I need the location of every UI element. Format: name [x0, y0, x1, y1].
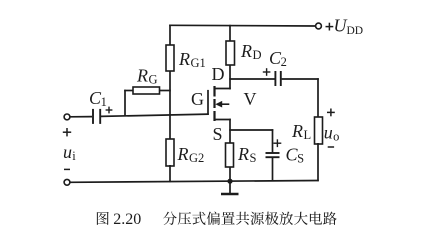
label ui — [63, 142, 76, 163]
label C2 + — [263, 68, 271, 76]
resistor RG2 — [166, 139, 174, 166]
wire top power rail — [169, 24, 315, 27]
label RS — [237, 144, 257, 165]
label G — [191, 89, 204, 109]
wire C1 to gate — [101, 114, 209, 116]
transistor V gate bar — [207, 90, 209, 115]
transistor V channel source segment — [213, 111, 215, 121]
svg-text:R: R — [291, 121, 303, 141]
svg-text:DD: DD — [347, 25, 364, 37]
svg-text:R: R — [136, 66, 148, 86]
svg-text:R: R — [178, 49, 190, 69]
label input minus — [64, 168, 70, 170]
wire drain to C2 — [229, 78, 274, 80]
svg-text:2: 2 — [281, 55, 287, 69]
wire RG1 top lead — [169, 25, 171, 47]
transistor V substrate arrow — [215, 101, 229, 108]
label V — [244, 89, 257, 109]
label input + — [63, 128, 71, 136]
svg-text:1: 1 — [101, 95, 107, 109]
svg-text:u: u — [63, 142, 72, 162]
label RG — [136, 66, 158, 87]
ground symbol — [221, 181, 239, 194]
wire source lead — [214, 119, 231, 121]
wire drain lead — [214, 88, 231, 90]
svg-text:S: S — [250, 151, 257, 165]
label S — [213, 124, 223, 144]
svg-text:i: i — [72, 149, 76, 163]
wire RD top lead — [229, 25, 231, 42]
svg-text:G2: G2 — [189, 151, 204, 165]
wire RD to drain — [229, 65, 231, 89]
label C1 + — [106, 107, 113, 114]
wire output vertical top — [317, 78, 319, 118]
svg-text:V: V — [244, 89, 257, 109]
label D — [212, 64, 225, 84]
caption title 分压式偏置共源极放大电路 — [163, 212, 337, 225]
svg-text:G: G — [191, 89, 204, 109]
svg-text:G: G — [149, 73, 158, 87]
capacitor CS — [266, 153, 280, 157]
label RG2 — [177, 144, 205, 165]
label RD — [240, 41, 262, 62]
wire input to C1 — [70, 116, 92, 118]
wire source to CS — [229, 129, 273, 131]
label RG1 — [178, 49, 206, 70]
svg-text:o: o — [333, 130, 339, 144]
wire C2 to output — [282, 78, 319, 80]
wire RG left lead — [124, 90, 133, 117]
label CS + — [274, 139, 282, 147]
label output minus — [328, 146, 334, 148]
svg-text:S: S — [297, 152, 304, 166]
label uo — [324, 123, 340, 144]
svg-text:R: R — [237, 144, 249, 164]
label CS — [286, 145, 305, 166]
wire RG right lead — [160, 90, 171, 92]
svg-text:2.20: 2.20 — [113, 211, 141, 228]
wire CS bottom lead — [272, 158, 274, 182]
svg-text:L: L — [304, 128, 312, 142]
svg-text:R: R — [177, 144, 189, 164]
capacitor C2 — [275, 71, 280, 86]
svg-text:R: R — [240, 41, 252, 61]
resistor RG — [133, 87, 160, 94]
resistor RS — [226, 143, 234, 167]
label RL — [291, 121, 311, 142]
resistor RG1 — [166, 45, 174, 71]
svg-text:D: D — [212, 64, 225, 84]
label +UDD — [326, 15, 364, 36]
junction ground node dot — [227, 179, 232, 184]
label output + — [327, 109, 335, 117]
wire CS top lead — [272, 129, 274, 152]
svg-text:U: U — [334, 15, 348, 35]
svg-text:D: D — [253, 48, 262, 62]
capacitor C1 — [93, 109, 100, 124]
terminal input top — [64, 114, 70, 120]
label C1 — [89, 88, 107, 109]
wire RG2 bottom lead — [169, 165, 171, 182]
wire RG1 to RG2 (node A) — [169, 71, 171, 140]
transistor V channel body segment — [213, 99, 215, 108]
resistor RD — [226, 41, 235, 65]
wire bottom ground rail — [70, 181, 319, 183]
resistor RL — [315, 117, 323, 144]
wire RS bottom lead — [229, 167, 231, 182]
caption figure number 图 2.20 — [97, 211, 141, 228]
wire output vertical bottom — [317, 143, 319, 181]
svg-text:G1: G1 — [191, 56, 206, 70]
label C2 — [269, 48, 287, 69]
svg-text:S: S — [213, 124, 223, 144]
terminal input bottom — [64, 179, 70, 185]
wire source to RS — [229, 119, 231, 144]
terminal +UDD — [316, 23, 322, 29]
svg-text:u: u — [324, 123, 333, 143]
transistor V channel drain segment — [213, 86, 215, 97]
